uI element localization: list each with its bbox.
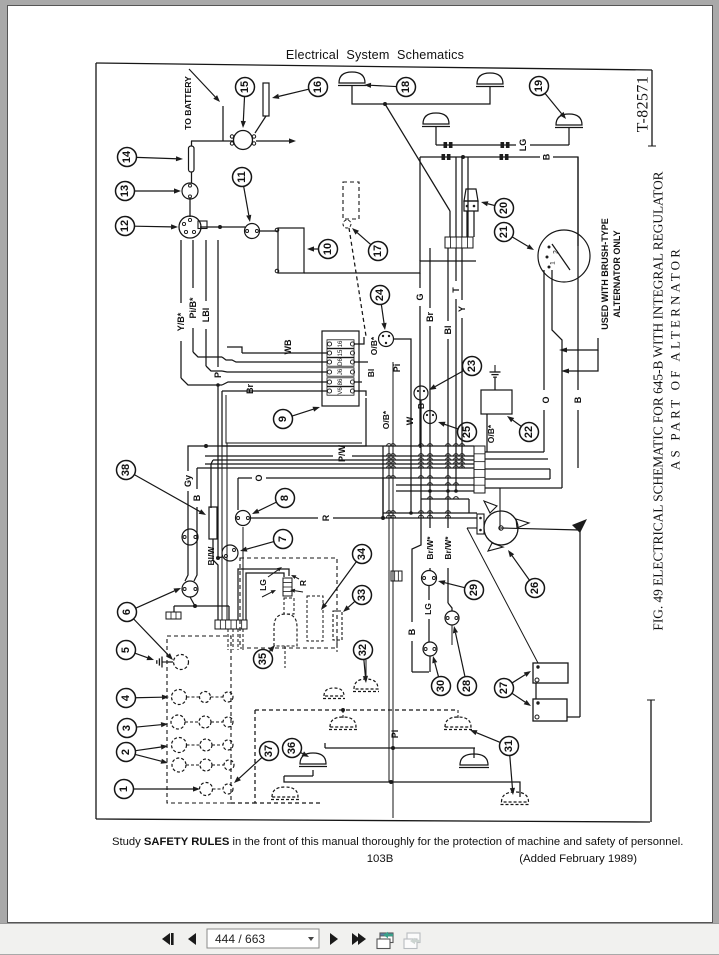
svg-text:Bl: Bl bbox=[366, 369, 376, 378]
svg-text:37: 37 bbox=[263, 745, 275, 757]
svg-text:18: 18 bbox=[400, 81, 412, 93]
svg-text:AS PART OF ALTERNATOR: AS PART OF ALTERNATOR bbox=[668, 246, 683, 470]
svg-text:27: 27 bbox=[498, 682, 510, 694]
svg-text:17: 17 bbox=[372, 245, 384, 257]
svg-text:4: 4 bbox=[120, 694, 132, 701]
svg-text:1: 1 bbox=[118, 786, 130, 792]
svg-text:LG: LG bbox=[423, 603, 433, 615]
svg-text:J6: J6 bbox=[338, 368, 344, 375]
svg-text:Br/W*: Br/W* bbox=[425, 536, 435, 560]
svg-text:34: 34 bbox=[356, 547, 368, 560]
svg-text:B: B bbox=[407, 628, 417, 635]
svg-text:30: 30 bbox=[435, 680, 447, 692]
svg-text:15: 15 bbox=[239, 81, 251, 93]
svg-text:23: 23 bbox=[466, 360, 478, 372]
svg-text:2: 2 bbox=[120, 749, 132, 755]
svg-text:25: 25 bbox=[461, 426, 473, 438]
svg-text:Br/W*: Br/W* bbox=[443, 536, 453, 560]
svg-text:LG: LG bbox=[518, 139, 528, 152]
svg-text:6: 6 bbox=[121, 609, 133, 615]
svg-text:Study SAFETY RULES in the fron: Study SAFETY RULES in the front of this … bbox=[112, 836, 683, 848]
svg-text:Gy: Gy bbox=[183, 475, 193, 487]
svg-text:USED WITH BRUSH-TYPE: USED WITH BRUSH-TYPE bbox=[600, 218, 610, 330]
svg-text:Bl: Bl bbox=[443, 326, 453, 335]
svg-text:R: R bbox=[321, 514, 331, 521]
svg-text:32: 32 bbox=[357, 644, 369, 656]
svg-text:36: 36 bbox=[286, 742, 298, 754]
svg-text:B: B bbox=[192, 494, 202, 501]
svg-text:O/B*: O/B* bbox=[486, 424, 496, 443]
svg-text:B: B bbox=[573, 396, 583, 403]
svg-text:LG: LG bbox=[258, 579, 268, 591]
svg-text:Pi/B*: Pi/B* bbox=[188, 297, 198, 319]
svg-text:12: 12 bbox=[119, 220, 131, 232]
svg-text:22: 22 bbox=[523, 426, 535, 438]
svg-text:B: B bbox=[542, 153, 552, 160]
svg-text:28: 28 bbox=[461, 680, 473, 692]
svg-text:21: 21 bbox=[498, 226, 510, 238]
svg-text:WB: WB bbox=[283, 339, 293, 354]
svg-text:LBl: LBl bbox=[201, 308, 211, 323]
svg-text:R: R bbox=[298, 580, 308, 586]
svg-text:5: 5 bbox=[120, 647, 132, 653]
svg-text:86: 86 bbox=[338, 378, 344, 385]
svg-text:11: 11 bbox=[236, 171, 248, 183]
svg-text:W: W bbox=[405, 416, 415, 425]
svg-text:1: 1 bbox=[550, 261, 557, 265]
svg-text:Y: Y bbox=[457, 306, 467, 312]
svg-text:V6: V6 bbox=[338, 387, 344, 395]
svg-text:O/B*: O/B* bbox=[381, 410, 391, 429]
svg-text:26: 26 bbox=[529, 582, 541, 594]
svg-text:P/W: P/W bbox=[337, 444, 347, 462]
svg-text:O: O bbox=[541, 396, 551, 403]
svg-text:444 / 663: 444 / 663 bbox=[215, 932, 265, 946]
svg-text:16: 16 bbox=[312, 81, 324, 93]
svg-text:103B: 103B bbox=[367, 853, 394, 865]
svg-text:P: P bbox=[213, 372, 223, 378]
svg-text:7: 7 bbox=[277, 536, 289, 542]
svg-text:35: 35 bbox=[257, 653, 269, 665]
svg-text:10: 10 bbox=[322, 243, 334, 255]
svg-text:Y/B*: Y/B* bbox=[176, 312, 186, 331]
svg-text:8: 8 bbox=[279, 495, 291, 501]
svg-text:15: 15 bbox=[338, 349, 344, 356]
svg-text:Bl/W: Bl/W bbox=[206, 546, 216, 566]
svg-text:ALTERNATOR ONLY: ALTERNATOR ONLY bbox=[612, 230, 622, 317]
svg-text:T: T bbox=[451, 287, 461, 293]
svg-text:O: O bbox=[254, 474, 264, 481]
svg-text:(Added February 1989): (Added February 1989) bbox=[519, 853, 637, 865]
svg-text:D6: D6 bbox=[338, 358, 344, 366]
svg-text:29: 29 bbox=[468, 584, 480, 596]
svg-text:Pi: Pi bbox=[390, 730, 400, 739]
svg-text:16: 16 bbox=[338, 340, 344, 347]
svg-text:Br: Br bbox=[245, 384, 255, 394]
svg-text:Br: Br bbox=[425, 312, 435, 322]
svg-text:13: 13 bbox=[119, 185, 131, 197]
svg-text:33: 33 bbox=[356, 589, 368, 601]
svg-text:Electrical System Schematics: Electrical System Schematics bbox=[286, 48, 464, 62]
svg-text:14: 14 bbox=[121, 150, 133, 163]
svg-text:FIG. 49 ELECTRICAL SCHEMATIC: FIG. 49 ELECTRICAL SCHEMATIC FOR 645-B W… bbox=[651, 171, 666, 630]
svg-text:31: 31 bbox=[503, 740, 515, 752]
svg-text:G: G bbox=[415, 293, 425, 300]
svg-text:24: 24 bbox=[374, 288, 386, 301]
svg-text:3: 3 bbox=[121, 725, 133, 731]
svg-text:O/B*: O/B* bbox=[369, 336, 379, 355]
svg-text:T-82571: T-82571 bbox=[635, 76, 652, 132]
svg-text:TO BATTERY: TO BATTERY bbox=[183, 76, 193, 130]
svg-text:2: 2 bbox=[553, 250, 560, 254]
svg-text:38: 38 bbox=[120, 464, 132, 476]
svg-text:20: 20 bbox=[498, 202, 510, 214]
svg-text:19: 19 bbox=[533, 80, 545, 92]
svg-text:9: 9 bbox=[277, 416, 289, 422]
